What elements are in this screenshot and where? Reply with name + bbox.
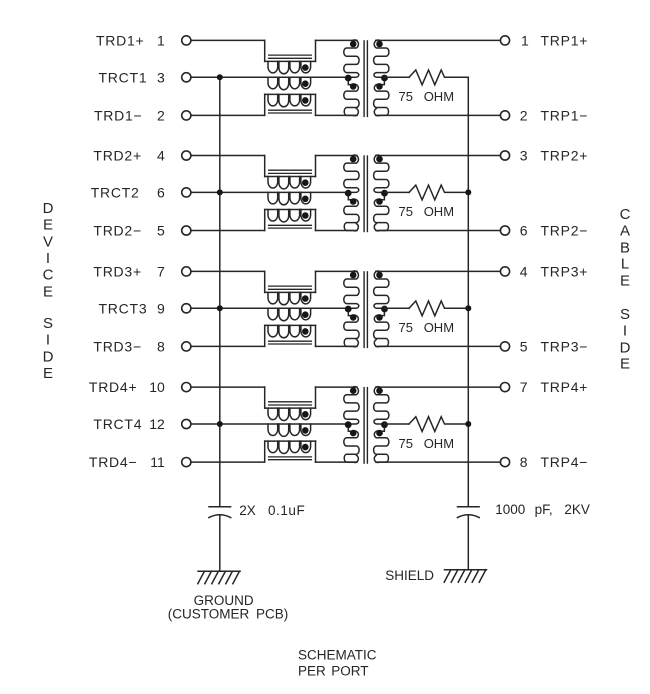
svg-text:C: C xyxy=(43,266,54,283)
svg-text:TRD4+: TRD4+ xyxy=(89,379,137,395)
svg-text:TRD1+: TRD1+ xyxy=(96,33,144,49)
svg-text:E: E xyxy=(620,355,630,372)
svg-text:OHM: OHM xyxy=(424,89,454,104)
svg-text:PER: PER xyxy=(298,664,326,679)
svg-text:75: 75 xyxy=(399,89,413,104)
svg-text:8: 8 xyxy=(157,339,165,355)
svg-text:5: 5 xyxy=(520,339,528,355)
svg-text:10: 10 xyxy=(149,379,165,395)
svg-text:A: A xyxy=(620,222,630,239)
svg-text:OHM: OHM xyxy=(424,320,454,335)
svg-text:2: 2 xyxy=(157,108,165,124)
svg-text:OHM: OHM xyxy=(424,204,454,219)
svg-text:S: S xyxy=(43,315,53,332)
svg-text:5: 5 xyxy=(157,223,165,239)
svg-text:E: E xyxy=(43,365,53,382)
svg-text:75: 75 xyxy=(399,320,413,335)
svg-text:I: I xyxy=(46,331,50,348)
svg-text:TRD3−: TRD3− xyxy=(93,339,141,355)
svg-text:TRCT2: TRCT2 xyxy=(91,185,140,201)
svg-text:6: 6 xyxy=(520,223,528,239)
svg-text:1: 1 xyxy=(521,33,529,49)
svg-text:7: 7 xyxy=(157,264,165,280)
svg-text:TRP3−: TRP3− xyxy=(541,339,589,355)
svg-text:pF,: pF, xyxy=(535,502,553,517)
svg-text:D: D xyxy=(43,200,54,217)
svg-text:2: 2 xyxy=(520,108,528,124)
svg-text:7: 7 xyxy=(520,379,528,395)
svg-text:TRCT4: TRCT4 xyxy=(93,416,142,432)
svg-text:S: S xyxy=(620,306,630,323)
svg-text:E: E xyxy=(620,272,630,289)
svg-text:TRD1−: TRD1− xyxy=(94,108,142,124)
svg-text:TRCT1: TRCT1 xyxy=(99,69,148,85)
svg-text:E: E xyxy=(43,283,53,300)
svg-text:D: D xyxy=(620,339,631,356)
svg-text:6: 6 xyxy=(157,185,165,201)
svg-text:TRP4+: TRP4+ xyxy=(541,379,589,395)
svg-text:B: B xyxy=(620,239,630,256)
svg-text:2X: 2X xyxy=(239,503,256,518)
svg-text:I: I xyxy=(623,322,627,339)
svg-text:PORT: PORT xyxy=(331,664,368,679)
svg-text:TRP4−: TRP4− xyxy=(541,454,589,470)
svg-text:D: D xyxy=(43,348,54,365)
svg-text:TRP1−: TRP1− xyxy=(541,108,589,124)
svg-text:75: 75 xyxy=(399,436,413,451)
svg-text:2KV: 2KV xyxy=(564,502,590,517)
svg-text:(CUSTOMER PCB): (CUSTOMER PCB) xyxy=(168,607,289,622)
svg-text:0.1uF: 0.1uF xyxy=(268,503,305,518)
svg-text:9: 9 xyxy=(157,300,165,316)
svg-text:L: L xyxy=(621,255,629,272)
svg-text:11: 11 xyxy=(150,454,165,470)
svg-text:OHM: OHM xyxy=(424,436,454,451)
svg-text:3: 3 xyxy=(157,69,165,85)
svg-text:3: 3 xyxy=(520,148,528,164)
svg-text:SCHEMATIC: SCHEMATIC xyxy=(298,648,377,663)
svg-text:TRP2−: TRP2− xyxy=(541,223,589,239)
svg-text:1: 1 xyxy=(157,33,165,49)
svg-text:12: 12 xyxy=(149,416,165,432)
svg-text:4: 4 xyxy=(520,264,528,280)
svg-text:TRP1+: TRP1+ xyxy=(541,33,589,49)
svg-text:TRCT3: TRCT3 xyxy=(99,300,148,316)
svg-text:1000: 1000 xyxy=(495,502,525,517)
svg-text:4: 4 xyxy=(157,148,165,164)
svg-text:75: 75 xyxy=(399,204,413,219)
svg-text:TRD2+: TRD2+ xyxy=(93,148,141,164)
svg-text:TRP2+: TRP2+ xyxy=(541,148,589,164)
svg-text:TRP3+: TRP3+ xyxy=(541,264,589,280)
svg-text:TRD3+: TRD3+ xyxy=(93,264,141,280)
svg-text:TRD4−: TRD4− xyxy=(89,454,137,470)
svg-text:V: V xyxy=(43,233,53,250)
svg-text:SHIELD: SHIELD xyxy=(385,568,434,583)
svg-text:8: 8 xyxy=(520,454,528,470)
svg-text:TRD2−: TRD2− xyxy=(93,223,141,239)
svg-text:C: C xyxy=(620,206,631,223)
svg-text:I: I xyxy=(46,250,50,267)
svg-text:E: E xyxy=(43,216,53,233)
